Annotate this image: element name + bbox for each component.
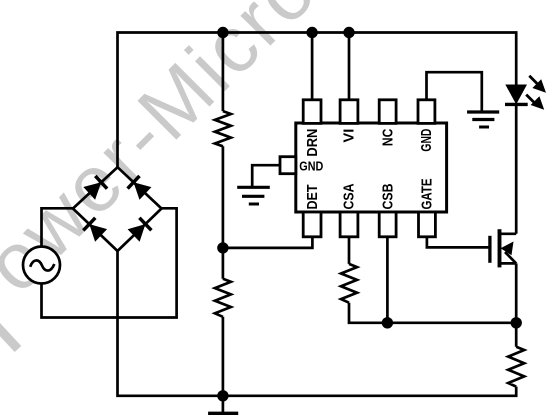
- svg-text:NC: NC: [380, 128, 396, 146]
- wire CSA pin down to R3: [348, 237, 351, 264]
- diode D2 top-right: [128, 176, 152, 200]
- wire mosfet source to R4: [515, 263, 518, 346]
- junction dot top rail at DRN: [306, 27, 317, 38]
- wire DET pin to R1/R2 junction: [223, 237, 313, 248]
- wire R3 bottom to sense rail to mosfet source junction: [349, 303, 516, 323]
- resistor R2: [215, 279, 231, 317]
- svg-text:GND: GND: [419, 129, 435, 152]
- resistor R4: [508, 347, 524, 387]
- svg-text:GND: GND: [299, 160, 323, 174]
- ground G3 at bottom rail: [208, 396, 238, 414]
- wire GND top pin to ground G2: [427, 72, 482, 111]
- wire LED cathode to mosfet drain: [515, 104, 518, 233]
- pin pad NC top: [379, 100, 396, 124]
- pin pad DET bottom: [303, 212, 321, 237]
- ac source sine symbol: [30, 260, 54, 270]
- svg-text:VI: VI: [342, 129, 358, 143]
- junction dot top rail at R1: [217, 27, 228, 38]
- wire GND left pin to ground G1: [252, 165, 280, 187]
- resistor R3: [341, 264, 357, 303]
- diode D4 bottom-right: [128, 218, 152, 242]
- wire bridge bottom vertex to bottom rail and bottom rail to R4: [118, 251, 517, 396]
- watermark Power-Micro: [0, 0, 394, 349]
- diode D3 bottom-left: [83, 218, 107, 242]
- junction dot mosfet source sense rail: [511, 317, 522, 328]
- junction dot DET R1/R2: [217, 242, 228, 253]
- LED D5: [505, 85, 528, 105]
- pin pad CSA bottom: [340, 212, 358, 237]
- pin pad GND top: [418, 100, 435, 124]
- pin pad GND left: [280, 157, 296, 174]
- diode D1 top-left: [83, 176, 107, 200]
- pin pad DRN top: [303, 100, 321, 124]
- svg-text:DET: DET: [305, 184, 321, 209]
- mosfet Q1: [490, 229, 516, 267]
- svg-text:DRN: DRN: [305, 129, 321, 157]
- pin pad VI top: [340, 100, 358, 124]
- wire ac top to bridge left vertex: [42, 208, 73, 246]
- wire top rail with left and right verticals: [118, 33, 517, 168]
- LED arrow 1: [529, 76, 546, 93]
- junction dot bottom rail ground: [217, 390, 228, 401]
- wire GATE pin to mosfet gate: [427, 237, 490, 248]
- LED arrow 2: [526, 95, 544, 110]
- pin pad CSB bottom: [379, 212, 396, 237]
- ground G2: [467, 112, 499, 127]
- wire R1 bottom to R2 top: [222, 146, 225, 278]
- ground G1: [237, 187, 270, 204]
- svg-text:GATE: GATE: [420, 178, 436, 209]
- wire R2 bottom to bottom rail: [222, 317, 225, 396]
- junction dot top rail at VI: [343, 27, 354, 38]
- wire ac bottom loop to bridge right vertex: [42, 208, 177, 317]
- svg-text:CSA: CSA: [342, 183, 358, 209]
- wire VI pin to top rail: [348, 33, 351, 100]
- wire CSB pin down to sense rail: [386, 237, 389, 323]
- junction dot CSB sense rail: [382, 317, 393, 328]
- ac source V1 circle: [23, 247, 60, 284]
- resistor R1: [215, 111, 231, 146]
- wire DRN pin to top rail: [311, 33, 314, 100]
- IC U1 body: [296, 123, 447, 212]
- svg-text:CSB: CSB: [380, 184, 396, 210]
- bridge rectifier diamond outline: [73, 167, 162, 251]
- wire R1/R2 branch top: top rail to R1: [222, 33, 225, 112]
- pin pad GATE bottom: [419, 212, 436, 237]
